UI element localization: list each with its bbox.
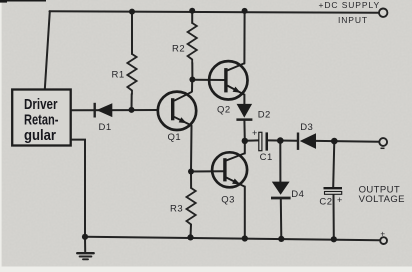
svg-text:R2: R2	[172, 43, 185, 54]
svg-text:+: +	[337, 195, 342, 205]
svg-text:Driver: Driver	[24, 97, 58, 113]
svg-text:R1: R1	[112, 70, 125, 81]
svg-text:Q1: Q1	[168, 132, 182, 143]
svg-text:VOLTAGE: VOLTAGE	[359, 194, 405, 205]
svg-text:C2: C2	[319, 197, 332, 208]
svg-text:INPUT: INPUT	[338, 15, 368, 25]
svg-text:Q2: Q2	[217, 104, 231, 115]
svg-text:R3: R3	[170, 203, 183, 214]
svg-text:+: +	[252, 128, 257, 138]
svg-text:Retan-: Retan-	[24, 112, 59, 128]
svg-text:D2: D2	[258, 110, 271, 121]
svg-text:+DC SUPPLY: +DC SUPPLY	[319, 0, 381, 10]
svg-text:Q3: Q3	[221, 195, 235, 206]
svg-text:D1: D1	[99, 122, 112, 133]
svg-text:C1: C1	[260, 152, 273, 163]
svg-text:+: +	[380, 230, 385, 239]
svg-text:D4: D4	[291, 189, 304, 200]
svg-text:gular: gular	[24, 128, 56, 144]
svg-text:D3: D3	[300, 122, 313, 133]
